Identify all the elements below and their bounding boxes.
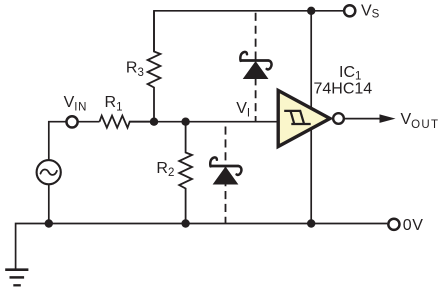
diode D2 dashed lead (internal clamp to 0V) [225,122,227,224]
terminal Vs [344,5,355,16]
wire Vin terminal to R1 [78,121,100,123]
resistor R1 [100,116,155,128]
junction node R2/VI [181,118,189,126]
junction node R2 / bottom rail [181,219,189,227]
wire node VI (R1 to inverter input) [130,121,279,123]
wire source lower lead [48,184,50,223]
diode D1 internal protection zener to Vs [240,52,271,79]
op-amp U1: Schmitt inverter IC1 74HC14 triangle [278,91,330,147]
svg-text:74HC14: 74HC14 [314,81,373,98]
AC source [37,160,61,184]
svg-text:VI: VI [236,100,250,120]
wire IC power line (Vs to 0V) [310,11,312,224]
wire top supply rail [154,11,343,52]
junction node source / bottom rail [45,219,53,227]
terminal Vin [66,116,77,127]
inverter output bubble [333,113,344,124]
ground [5,270,28,286]
resistor R3 [148,11,161,122]
svg-text:VOUT: VOUT [401,111,440,131]
svg-text:VS: VS [361,2,380,20]
junction node top rail / IC supply [307,7,315,15]
wire bottom 0V rail with ground drop [16,224,388,270]
svg-text:VIN: VIN [64,94,88,114]
wire from source corner to Vin terminal [49,122,67,161]
svg-text:0V: 0V [403,217,424,234]
diode D2 internal protection zener to 0V [210,157,241,184]
junction node bottom rail / IC ground [307,219,315,227]
resistor R2 [179,122,192,224]
junction node R3/R1/VI [150,118,158,126]
arrowhead Vout [380,115,394,122]
terminal 0V [388,219,399,230]
svg-text:R3: R3 [126,59,144,79]
wire output to arrow [345,118,382,120]
hysteresis symbol inside inverter [284,111,311,124]
diode D1 dashed lead (internal clamp to Vs) [255,11,257,122]
svg-text:R2: R2 [156,160,174,179]
svg-text:R1: R1 [105,94,123,114]
